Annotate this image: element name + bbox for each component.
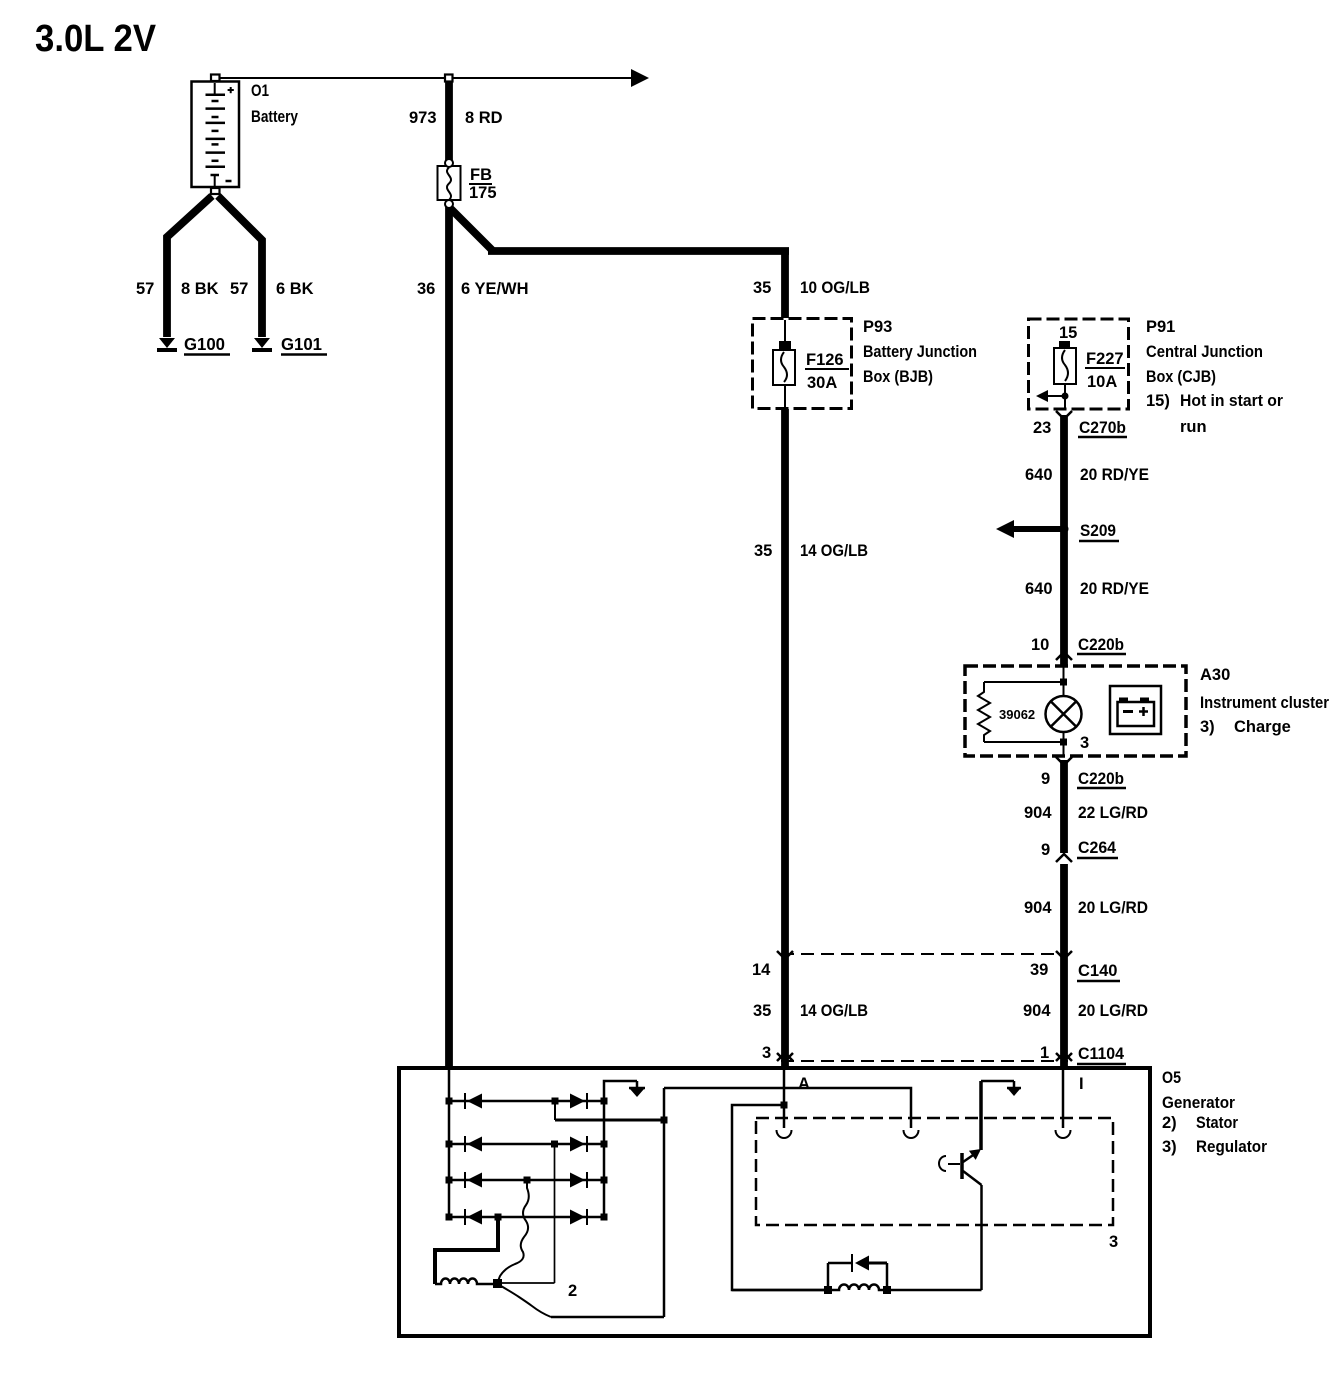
svg-text:9: 9	[1041, 841, 1050, 859]
svg-text:3: 3	[762, 1044, 771, 1062]
svg-text:2: 2	[568, 1282, 577, 1300]
svg-text:G100: G100	[184, 334, 225, 354]
svg-text:175: 175	[469, 184, 497, 202]
svg-text:904: 904	[1024, 899, 1052, 917]
svg-text:Generator: Generator	[1162, 1094, 1236, 1112]
svg-text:2): 2)	[1162, 1114, 1177, 1132]
svg-text:10A: 10A	[1087, 373, 1117, 391]
svg-text:Charge: Charge	[1234, 718, 1291, 736]
svg-text:39062: 39062	[999, 707, 1035, 722]
svg-text:57: 57	[230, 280, 248, 298]
svg-text:F227: F227	[1086, 350, 1124, 368]
svg-text:10: 10	[1031, 636, 1049, 654]
svg-text:FB: FB	[470, 166, 492, 184]
svg-text:15): 15)	[1146, 392, 1170, 410]
svg-text:39: 39	[1030, 961, 1048, 979]
svg-text:640: 640	[1025, 580, 1053, 598]
svg-text:20 RD/YE: 20 RD/YE	[1080, 580, 1149, 598]
svg-text:run: run	[1180, 418, 1207, 436]
svg-text:6 BK: 6 BK	[276, 280, 314, 298]
svg-text:904: 904	[1023, 1002, 1051, 1020]
svg-text:3): 3)	[1200, 718, 1215, 736]
svg-text:S209: S209	[1080, 522, 1116, 540]
svg-text:F126: F126	[806, 351, 844, 369]
svg-text:35: 35	[753, 279, 771, 297]
svg-text:1: 1	[1040, 1044, 1049, 1062]
svg-text:C264: C264	[1078, 839, 1117, 857]
svg-text:C140: C140	[1078, 962, 1117, 980]
svg-text:Stator: Stator	[1196, 1114, 1239, 1132]
svg-text:10 OG/LB: 10 OG/LB	[800, 279, 870, 297]
svg-text:35: 35	[753, 1002, 771, 1020]
svg-text:22 LG/RD: 22 LG/RD	[1078, 804, 1148, 822]
svg-text:36: 36	[417, 280, 435, 298]
svg-text:Box (BJB): Box (BJB)	[863, 368, 933, 386]
svg-text:A: A	[798, 1075, 810, 1093]
svg-text:Hot in start or: Hot in start or	[1180, 392, 1284, 410]
svg-text:57: 57	[136, 280, 154, 298]
svg-text:C220b: C220b	[1078, 636, 1124, 654]
svg-text:8 RD: 8 RD	[465, 109, 503, 127]
svg-text:O1: O1	[251, 82, 269, 100]
svg-text:9: 9	[1041, 770, 1050, 788]
svg-text:C1104: C1104	[1078, 1045, 1125, 1063]
svg-text:Battery: Battery	[251, 108, 299, 126]
svg-text:Regulator: Regulator	[1196, 1138, 1268, 1156]
svg-text:3): 3)	[1162, 1138, 1177, 1156]
svg-text:14: 14	[752, 961, 771, 979]
svg-text:8 BK: 8 BK	[181, 280, 219, 298]
svg-text:3: 3	[1109, 1233, 1118, 1251]
svg-text:30A: 30A	[807, 374, 837, 392]
svg-text:Box (CJB): Box (CJB)	[1146, 368, 1216, 386]
svg-text:6 YE/WH: 6 YE/WH	[461, 280, 529, 298]
svg-text:20 LG/RD: 20 LG/RD	[1078, 899, 1148, 917]
svg-text:I: I	[1079, 1075, 1084, 1093]
svg-text:C270b: C270b	[1079, 419, 1126, 437]
svg-text:23: 23	[1033, 419, 1051, 437]
svg-text:Central Junction: Central Junction	[1146, 343, 1263, 361]
svg-text:14 OG/LB: 14 OG/LB	[800, 1002, 868, 1020]
svg-text:14 OG/LB: 14 OG/LB	[800, 542, 868, 560]
svg-text:C220b: C220b	[1078, 770, 1124, 788]
svg-text:640: 640	[1025, 466, 1053, 484]
svg-text:35: 35	[754, 542, 772, 560]
svg-text:3: 3	[1080, 734, 1089, 752]
svg-text:P91: P91	[1146, 318, 1175, 336]
svg-text:P93: P93	[863, 318, 892, 336]
svg-text:20 LG/RD: 20 LG/RD	[1078, 1002, 1148, 1020]
svg-text:O5: O5	[1162, 1069, 1181, 1087]
svg-text:904: 904	[1024, 804, 1052, 822]
svg-text:3.0L 2V: 3.0L 2V	[35, 18, 157, 60]
svg-text:G101: G101	[281, 334, 322, 354]
svg-text:A30: A30	[1200, 666, 1230, 684]
svg-text:15: 15	[1059, 324, 1077, 342]
svg-text:Battery Junction: Battery Junction	[863, 343, 977, 361]
svg-text:Instrument cluster: Instrument cluster	[1200, 694, 1330, 712]
svg-text:973: 973	[409, 109, 437, 127]
svg-text:20 RD/YE: 20 RD/YE	[1080, 466, 1149, 484]
